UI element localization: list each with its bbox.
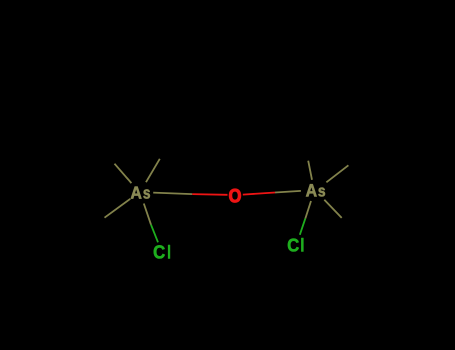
wire: left As down-left C stub (105, 199, 131, 218)
wire: left As-Cl bond (Cl half, green) (151, 225, 158, 243)
wire: left As-O bond (As half, olive) (153, 193, 192, 195)
wire: left As-Cl bond (As half, olive) (144, 204, 151, 225)
wire: left As-O bond (O half, red) (192, 193, 227, 196)
wire: right As up C stub (308, 161, 312, 180)
atom label As (left) (131, 187, 150, 199)
atom label Cl (right) (288, 238, 303, 252)
wire: left As up-right C stub (146, 159, 160, 182)
wire: right As up-right C stub (326, 165, 348, 182)
wire: right As-Cl bond (Cl half, green) (300, 219, 306, 235)
atom label As (right) (306, 184, 325, 196)
wire: right As-Cl bond (As half, olive) (305, 201, 311, 219)
wire: right As-O bond (O half, red) (243, 193, 275, 195)
wire: right As-O bond (As half, olive) (275, 191, 301, 193)
wire: left As up-left C stub (115, 164, 132, 183)
atom label O (bridge) (229, 189, 240, 202)
wire: right As down-right C stub (324, 200, 341, 218)
atom label Cl (left) (154, 245, 170, 258)
